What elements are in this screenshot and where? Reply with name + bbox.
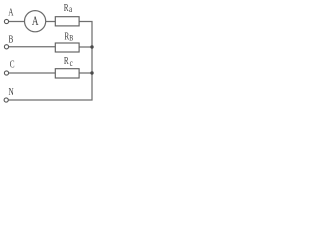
svg-text:A: A	[32, 15, 39, 29]
svg-text:C: C	[10, 58, 15, 70]
svg-text:A: A	[8, 6, 14, 18]
svg-text:a: a	[69, 4, 72, 14]
svg-text:R: R	[64, 55, 70, 67]
svg-text:B: B	[9, 33, 14, 45]
svg-text:N: N	[9, 86, 15, 98]
svg-text:B: B	[69, 32, 73, 42]
svg-text:c: c	[70, 58, 73, 68]
